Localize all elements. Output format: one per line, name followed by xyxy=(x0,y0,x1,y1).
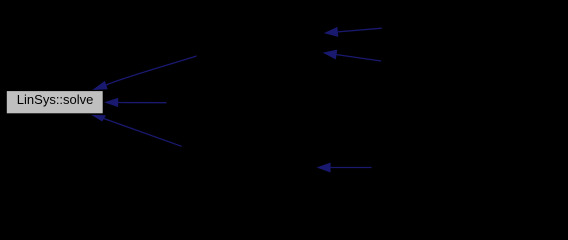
svg-text:LinSys::solve: LinSys::solve xyxy=(17,92,94,107)
edge: caller (middle-mid) -> LinSys::solve xyxy=(104,98,166,107)
edge: right node 2 -> middle-top caller xyxy=(323,50,381,61)
node: LinSys::solve (current function, grey box) xyxy=(6,91,103,114)
edge: right node 3 -> middle-bottom caller xyxy=(317,163,372,173)
edge: caller (middle-bottom) -> LinSys::solve xyxy=(91,115,181,146)
edge: caller (middle-top) -> LinSys::solve xyxy=(92,56,196,90)
edge: right node 1 -> middle-top caller xyxy=(324,27,382,37)
